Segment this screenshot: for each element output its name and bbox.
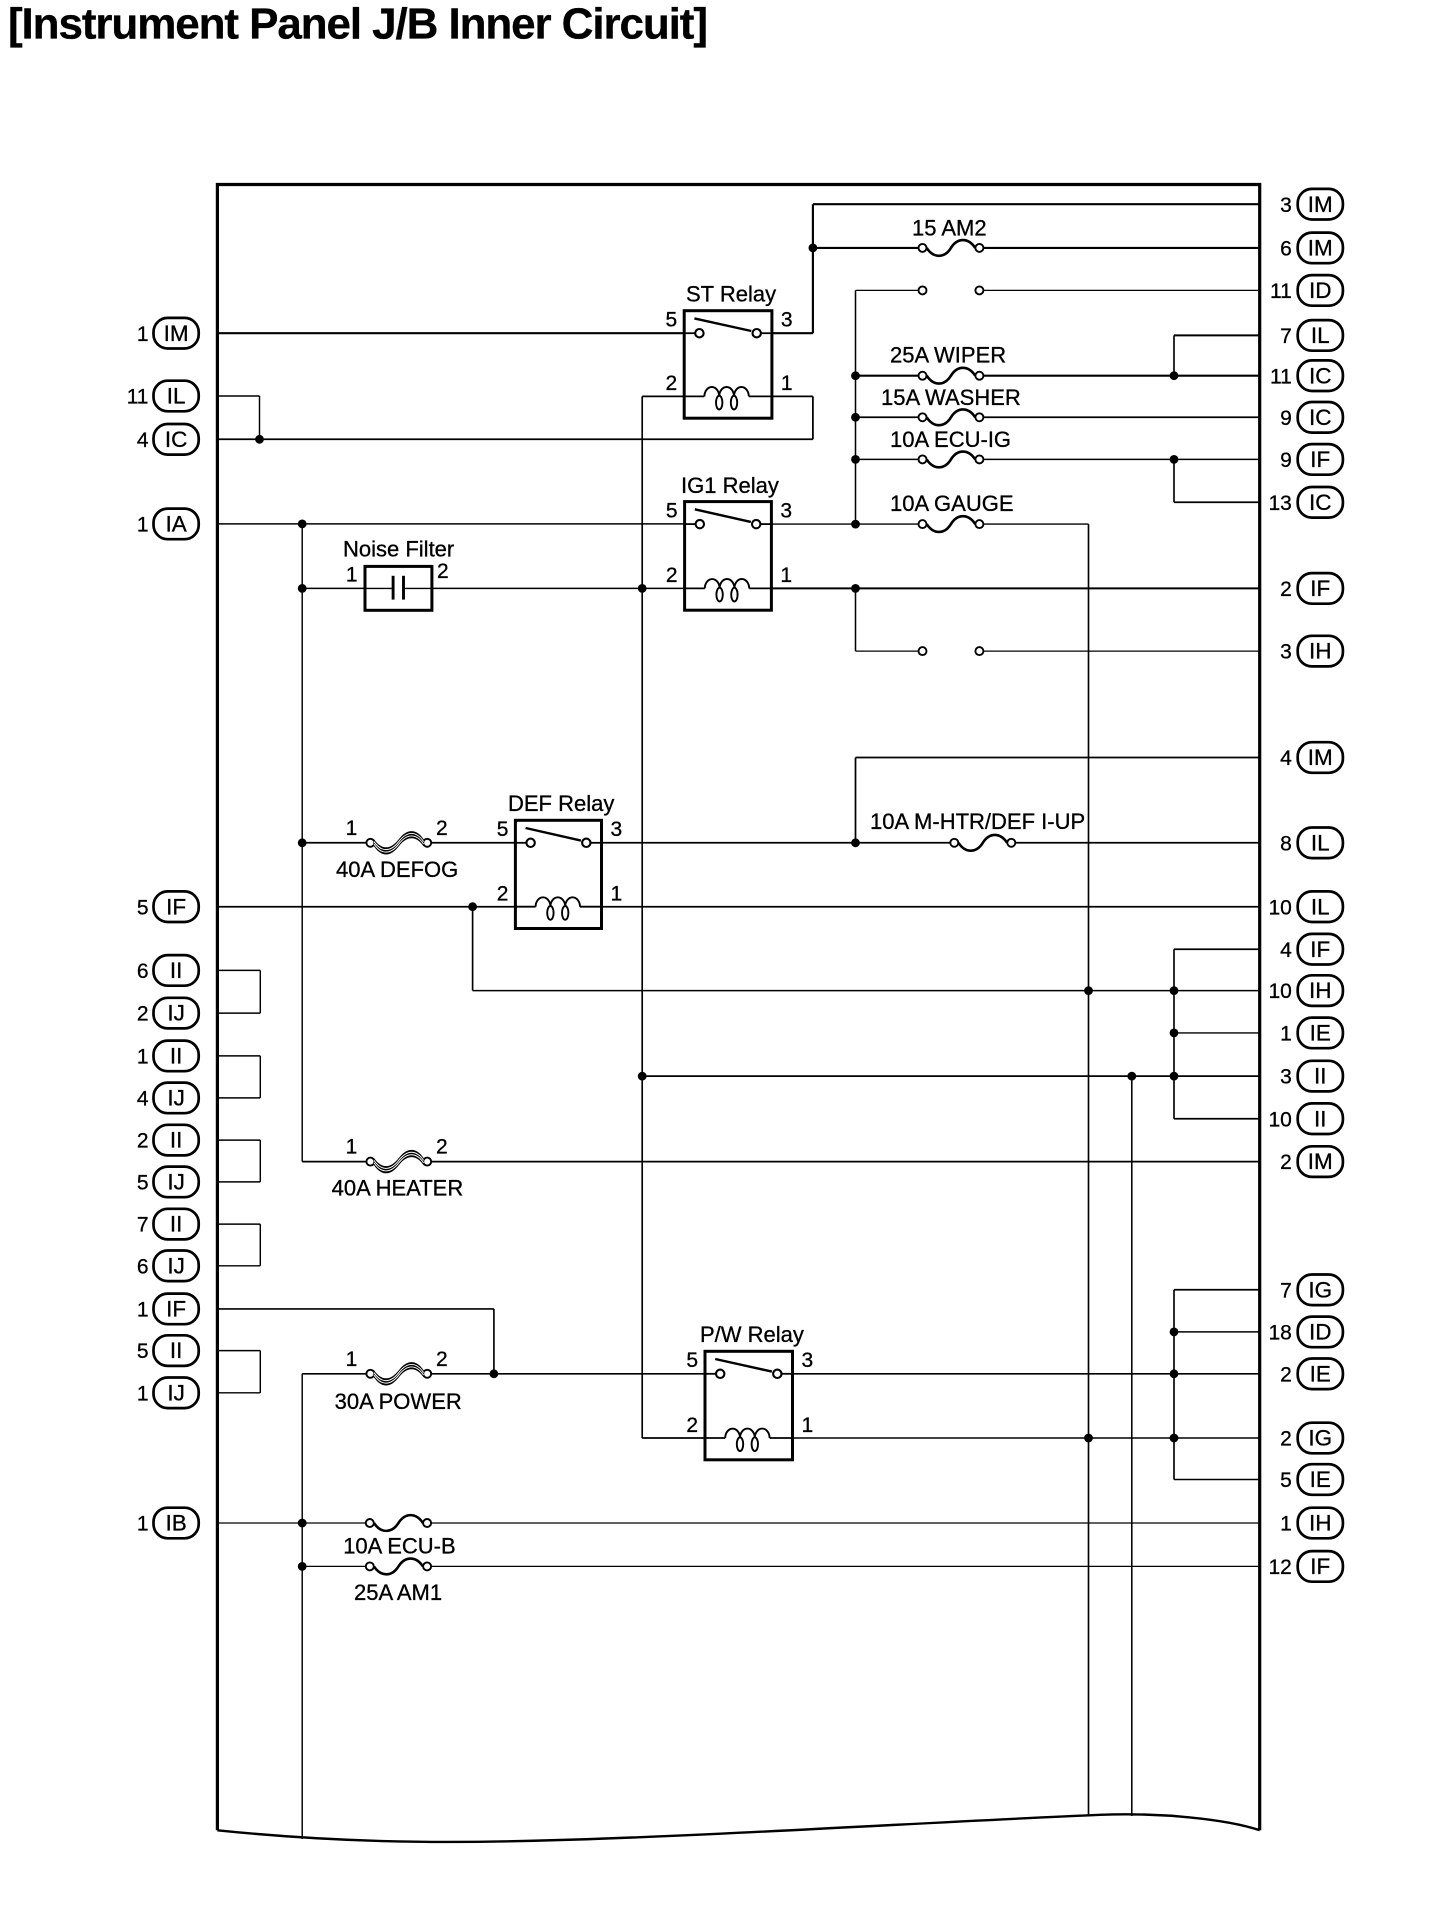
svg-text:2: 2 (1280, 578, 1292, 601)
node AM1 tap on POWER riser (298, 1562, 307, 1571)
svg-text:6: 6 (137, 1255, 149, 1278)
svg-text:2: 2 (497, 883, 509, 906)
node 4 IM junction on M-HTR row (851, 838, 860, 847)
svg-text:1: 1 (346, 1348, 358, 1371)
wire 11 IL drop to 4 IC (259, 396, 261, 439)
wire 10 II stub (1174, 1118, 1260, 1120)
svg-text:II: II (170, 1044, 183, 1069)
svg-text:2: 2 (666, 564, 678, 587)
svg-text:10: 10 (1268, 896, 1291, 919)
wire bus riser upper (WIPER/WASHER/ECU-IG/GAUGE feed) (855, 290, 857, 524)
node bus to 15A WASHER (851, 413, 860, 422)
svg-text:IC: IC (1309, 490, 1332, 515)
connector 9 IC (right) (1280, 402, 1343, 433)
svg-text:12: 12 (1268, 1556, 1291, 1579)
wire bus riser lower (2 IF to 3 IH) (855, 588, 857, 651)
svg-text:IJ: IJ (167, 1001, 185, 1026)
connector 1 IJ (left) (137, 1378, 199, 1409)
fuse 25A AM1 (end circles, element, label) (354, 1559, 442, 1606)
svg-text:IC: IC (1309, 363, 1332, 388)
svg-text:IA: IA (165, 512, 186, 537)
svg-text:3: 3 (802, 1349, 814, 1372)
wire M-HTR fuse to 8 IL (1015, 842, 1259, 844)
svg-text:5: 5 (137, 896, 149, 919)
svg-text:IL: IL (1311, 323, 1330, 348)
connector 4 IF (right) (1280, 934, 1343, 965)
wire bracket 9IF-13IC vertical (1173, 459, 1175, 502)
svg-text:2: 2 (1280, 1151, 1292, 1174)
svg-text:1: 1 (137, 1513, 149, 1536)
svg-text:IE: IE (1310, 1021, 1331, 1046)
svg-text:IF: IF (1310, 937, 1330, 962)
svg-text:IJ: IJ (167, 1380, 185, 1405)
connector 1 IH (right) (1280, 1508, 1343, 1539)
svg-text:11: 11 (1270, 365, 1292, 388)
svg-text:3: 3 (1280, 641, 1292, 664)
svg-text:IF: IF (166, 1297, 186, 1322)
svg-text:1: 1 (137, 323, 149, 346)
wire POWER fuse to P/W pin5 (431, 1373, 705, 1375)
wire long riser B (3 II down page) (1131, 1076, 1133, 1816)
wire 18 ID stub (1174, 1331, 1260, 1333)
wire 3 II row (642, 1075, 1259, 1077)
connector 3 II (right) (1280, 1061, 1343, 1092)
svg-text:2: 2 (686, 1414, 698, 1437)
svg-text:P/W Relay: P/W Relay (700, 1322, 804, 1347)
svg-text:IH: IH (1309, 639, 1332, 664)
connector 2 IF (right) (1280, 573, 1343, 604)
wire coil riser corner into P/W pin2 (642, 1437, 705, 1439)
connector 5 II (left) (137, 1335, 199, 1366)
svg-text:10A GAUGE: 10A GAUGE (890, 491, 1014, 516)
node ST/PW coil riser tap on noise row (638, 584, 647, 593)
svg-text:18: 18 (1268, 1322, 1291, 1345)
wire 1 IF stub (217, 1308, 494, 1310)
wire ECU-B fuse to 1 IH (431, 1522, 1260, 1524)
shorting bracket 2 II-5 IJ (217, 1140, 260, 1182)
svg-text:9: 9 (1280, 407, 1292, 430)
svg-text:10A ECU-B: 10A ECU-B (343, 1534, 456, 1559)
node bracket1 at 3 II (1170, 1072, 1179, 1081)
svg-text:IF: IF (1310, 447, 1330, 472)
wire DEFOG fuse to DEF pin5 (431, 842, 515, 844)
relay ST Relay (box, contacts 5-3, coil 2-1, labels) (666, 282, 793, 419)
svg-text:2: 2 (1280, 1428, 1292, 1451)
svg-text:2: 2 (1280, 1363, 1292, 1386)
connector 12 IF (right) (1268, 1551, 1342, 1582)
wire 7 IG stub (1174, 1289, 1260, 1291)
svg-text:3: 3 (611, 818, 623, 841)
svg-text:Noise Filter: Noise Filter (343, 537, 454, 562)
svg-text:15 AM2: 15 AM2 (912, 216, 987, 241)
svg-text:3: 3 (781, 308, 793, 331)
connector 10 II (right) (1268, 1103, 1342, 1134)
connector 1 IE (right) (1280, 1018, 1343, 1049)
wire HEATER row to fuse (302, 1161, 366, 1163)
svg-text:6: 6 (1280, 238, 1292, 261)
svg-text:30A POWER: 30A POWER (335, 1389, 462, 1414)
svg-text:IL: IL (167, 384, 186, 409)
svg-text:5: 5 (137, 1172, 149, 1195)
wire HEATER fuse to 2 IM (431, 1161, 1259, 1163)
connector 5 IF (left) (137, 891, 199, 922)
node 2 IG x long riser A (1084, 1434, 1093, 1443)
wire right bracket 1 vertical (1173, 949, 1175, 1118)
connector 10 IH (right) (1268, 975, 1342, 1006)
connector 6 II (left) (137, 955, 199, 986)
svg-text:25A WIPER: 25A WIPER (890, 342, 1006, 367)
svg-text:II: II (1314, 1064, 1327, 1089)
svg-text:II: II (170, 1128, 183, 1153)
connector 4 IM (right) (1280, 742, 1343, 773)
wire 13 IC stub (1174, 501, 1260, 503)
connector 1 IM (left) (137, 318, 199, 349)
svg-text:3: 3 (1280, 194, 1292, 217)
svg-text:IM: IM (1308, 1149, 1333, 1174)
node AM2 tap on ST pin3 riser (809, 244, 818, 253)
svg-text:7: 7 (137, 1214, 149, 1237)
svg-text:1: 1 (611, 883, 623, 906)
connector 1 II (left) (137, 1041, 199, 1072)
svg-text:5: 5 (686, 1349, 698, 1372)
svg-text:IG: IG (1308, 1426, 1332, 1451)
wire 1 IM to ST pin5 (217, 332, 684, 334)
wire ST pin3 to riser (772, 332, 813, 334)
svg-text:IG1 Relay: IG1 Relay (681, 473, 779, 498)
connector 1 IA (left) (137, 509, 199, 540)
svg-text:4: 4 (137, 1088, 149, 1111)
connector 1 IB (left) (137, 1508, 199, 1539)
svg-text:IF: IF (1310, 1554, 1330, 1579)
node bus to 10A ECU-IG (851, 455, 860, 464)
svg-text:IM: IM (164, 321, 189, 346)
svg-text:II: II (170, 1338, 183, 1363)
wire 3 IM row (813, 203, 1260, 205)
node 3 II tap on coil riser (638, 1072, 647, 1081)
svg-text:[Instrument Panel J/B Inner Ci: [Instrument Panel J/B Inner Circuit] (8, 0, 708, 49)
connector 7 II (left) (137, 1209, 199, 1240)
fuse 10A ECU-B (end circles, element, label) (343, 1515, 456, 1559)
wire AM1 fuse to 12 IF (431, 1565, 1260, 1567)
wire 3 IH row right (983, 650, 1259, 652)
svg-text:2: 2 (436, 817, 448, 840)
wire AM1 row to fuse (302, 1565, 366, 1567)
connector 2 IJ (left) (137, 998, 199, 1029)
svg-text:IE: IE (1310, 1361, 1331, 1386)
svg-text:ID: ID (1309, 278, 1332, 303)
fuse 15A WASHER (end circles, element, label) (881, 385, 1021, 425)
wire DEFOG row to fuse (302, 842, 366, 844)
wire noise row mid to IG1 pin2 (432, 587, 685, 589)
fusible link 40A HEATER (end circles, wavy band, pins 1-2, label) (332, 1136, 464, 1201)
svg-text:ST Relay: ST Relay (686, 282, 776, 307)
node bracket1 at 1 IE (1170, 1029, 1179, 1038)
shorting bracket 6 II-2 IJ (217, 970, 260, 1013)
svg-text:11: 11 (1270, 280, 1292, 303)
svg-text:10: 10 (1268, 1108, 1291, 1131)
wire IG1 pin3 to GAUGE fuse (771, 523, 918, 525)
wire 7 IL stub (1174, 334, 1260, 336)
svg-text:4: 4 (1280, 747, 1292, 770)
node 3 II to long riser B (1127, 1072, 1136, 1081)
connector 9 IF (right) (1280, 444, 1343, 475)
fuse 25A WIPER (end circles, element, label) (890, 342, 1006, 383)
node 1 IF junction on POWER row (490, 1369, 499, 1378)
wire noise row left (302, 587, 365, 589)
svg-text:40A DEFOG: 40A DEFOG (336, 857, 458, 882)
svg-text:IJ: IJ (167, 1253, 185, 1278)
svg-text:1: 1 (137, 1299, 149, 1322)
svg-text:IJ: IJ (167, 1086, 185, 1111)
svg-text:3: 3 (1280, 1066, 1292, 1089)
svg-text:7: 7 (1280, 1279, 1292, 1302)
node bus to 25A WIPER (851, 371, 860, 380)
shorting bracket 1 II-4 IJ (217, 1056, 260, 1098)
shorting bracket 7 II-6 IJ (217, 1224, 260, 1266)
connector 7 IL (right) (1280, 320, 1343, 351)
node 2 IG x right bracket2 (1170, 1434, 1179, 1443)
connector 3 IH (right) (1280, 636, 1343, 667)
svg-text:5: 5 (1280, 1469, 1292, 1492)
svg-text:6: 6 (137, 960, 149, 983)
svg-text:IL: IL (1311, 830, 1330, 855)
node 2 IE x right bracket2 (1170, 1369, 1179, 1378)
wire 4 IM row (856, 757, 1260, 759)
svg-text:1: 1 (346, 1136, 358, 1159)
wire ST pin1 drop (812, 396, 814, 439)
svg-text:10A M-HTR/DEF I-UP: 10A M-HTR/DEF I-UP (870, 809, 1085, 834)
wire coil riser (ST pin2 down to P/W pin2) (641, 396, 643, 1438)
noise filter NF (box, capacitor plates, pins 1-2, label) (343, 537, 454, 611)
svg-text:2: 2 (137, 1130, 149, 1153)
svg-text:IH: IH (1309, 1511, 1332, 1536)
connector 3 IM (right) (1280, 189, 1343, 220)
svg-text:4: 4 (1280, 939, 1292, 962)
svg-text:8: 8 (1280, 832, 1292, 855)
svg-text:2: 2 (666, 372, 678, 395)
connector 2 IE (right) (1280, 1359, 1343, 1390)
node DEFOG fuse tap on riser (298, 838, 307, 847)
wire 10A ECU-IG row (856, 458, 919, 460)
wire 1 IB row to fuse (217, 1522, 365, 1524)
svg-text:1: 1 (780, 564, 792, 587)
wire 11 IL stub (217, 395, 259, 397)
junction-block torn bottom edge (217, 1814, 1259, 1842)
connector 5 IJ (left) (137, 1167, 199, 1198)
svg-text:40A HEATER: 40A HEATER (332, 1176, 464, 1201)
svg-text:25A AM1: 25A AM1 (354, 1580, 442, 1605)
svg-text:II: II (170, 958, 183, 983)
node 10 IH x long riser A (1084, 986, 1093, 995)
svg-text:1: 1 (781, 372, 793, 395)
svg-text:IG: IG (1308, 1277, 1332, 1302)
wire DEF pin3 to M-HTR fuse (602, 842, 951, 844)
svg-text:IJ: IJ (167, 1170, 185, 1195)
wire 1 IF drop to POWER row (493, 1309, 495, 1374)
svg-text:1: 1 (802, 1414, 814, 1437)
wire bracket 7IL-11IC vertical (1173, 335, 1175, 375)
wire vertical ST pin3 to 3 IM / AM2 (812, 204, 814, 333)
wire 5 IE stub (1174, 1479, 1260, 1481)
svg-text:10A ECU-IG: 10A ECU-IG (890, 427, 1011, 452)
wire right bracket 2 vertical (1173, 1290, 1175, 1480)
wire long riser A (GAUGE feed down page) (1088, 524, 1090, 1815)
svg-text:4: 4 (137, 429, 149, 452)
svg-text:II: II (170, 1212, 183, 1237)
wire P/W pin3 to 2 IE (793, 1373, 1260, 1375)
svg-text:IH: IH (1309, 978, 1332, 1003)
node bracket at 11 IC (WIPER out) (1170, 371, 1179, 380)
connector 13 IC (right) (1268, 487, 1342, 518)
connector 8 IL (right) (1280, 828, 1343, 859)
node noise filter tap (298, 584, 307, 593)
fuse 15A AM2 (end circles, element, label) (912, 216, 987, 256)
svg-text:11: 11 (127, 386, 149, 409)
connector 6 IM (right) (1280, 233, 1343, 264)
wire 1 IA to IG1 pin5 (217, 523, 684, 525)
connector 11 IL (left) (127, 381, 199, 412)
wire GAUGE fuse to long riser (983, 523, 1088, 525)
svg-text:5: 5 (666, 499, 678, 522)
node bracket at 9 IF (ECU-IG out) (1170, 455, 1179, 464)
svg-text:1: 1 (137, 514, 149, 537)
node 1 IA tap to DEFOG riser (298, 520, 307, 529)
connector 4 IC (left) (137, 424, 199, 455)
fusible link 30A POWER (end circles, wavy band, pins 1-2, label) (335, 1348, 462, 1414)
connector 10 IL (right) (1268, 891, 1342, 922)
wire POWER row to fuse (302, 1373, 366, 1375)
wire 15A WASHER row (856, 416, 919, 418)
wire ST pin1 right (772, 395, 813, 397)
svg-text:13: 13 (1268, 492, 1291, 515)
wire 4 IM drop to M-HTR row (855, 758, 857, 843)
fuse 10A GAUGE (end circles, element, label) (890, 491, 1014, 532)
connector 11 IC (right) (1270, 360, 1343, 391)
svg-text:IF: IF (166, 894, 186, 919)
svg-text:1: 1 (1280, 1513, 1292, 1536)
wire 4 IC row (217, 438, 813, 440)
svg-text:IM: IM (1308, 745, 1333, 770)
svg-text:2: 2 (437, 560, 449, 583)
connector 4 IJ (left) (137, 1083, 199, 1114)
fusible link 40A DEFOG (end circles, wavy band, pins 1-2, label) (336, 817, 458, 882)
svg-text:2: 2 (436, 1348, 448, 1371)
connector 2 IM (right) (1280, 1146, 1343, 1177)
svg-text:IE: IE (1310, 1467, 1331, 1492)
open contact pair to 11 ID (919, 286, 984, 294)
svg-text:IM: IM (1308, 236, 1333, 261)
wire POWER riser (down to ECU-B/AM1) (301, 1374, 303, 1839)
shorting bracket 5 II-1 IJ (217, 1351, 260, 1393)
node 10 IH x right bracket (1170, 986, 1179, 995)
svg-text:IF: IF (1310, 576, 1330, 601)
relay IG1 Relay (box, contacts 5-3, coil 2-1, labels) (666, 473, 792, 610)
connector 2 IG (right) (1280, 1423, 1343, 1454)
wire 4 IF stub (1174, 948, 1260, 950)
svg-text:IL: IL (1311, 894, 1330, 919)
svg-text:1: 1 (137, 1046, 149, 1069)
connector 1 IF (left) (137, 1294, 199, 1325)
svg-text:II: II (1314, 1106, 1327, 1131)
relay P/W Relay (box, contacts 5-3, coil 2-1, labels) (686, 1322, 813, 1460)
node 11 IL junction on 4 IC row (255, 435, 264, 444)
svg-text:3: 3 (780, 499, 792, 522)
svg-text:5: 5 (137, 1340, 149, 1363)
svg-text:1: 1 (1280, 1023, 1292, 1046)
svg-text:1: 1 (137, 1382, 149, 1405)
junction-block border frame (217, 185, 1259, 1831)
svg-text:1: 1 (346, 817, 358, 840)
node bus to 10A GAUGE / IG1 pin3 (851, 520, 860, 529)
svg-text:7: 7 (1280, 325, 1292, 348)
wire 25A WIPER row (856, 375, 919, 377)
svg-text:ID: ID (1309, 1320, 1332, 1345)
svg-text:10: 10 (1268, 980, 1291, 1003)
svg-text:15A WASHER: 15A WASHER (881, 385, 1021, 410)
node 5 IF drop tap (468, 902, 477, 911)
connector 7 IG (right) (1280, 1275, 1343, 1306)
connector 5 IE (right) (1280, 1464, 1343, 1495)
wire 1 IE stub (1174, 1032, 1260, 1034)
svg-text:5: 5 (497, 818, 509, 841)
svg-text:IB: IB (165, 1511, 186, 1536)
connector 2 II (left) (137, 1125, 199, 1156)
fuse 10A M-HTR/DEF I-UP (end circles, element, label) (870, 809, 1085, 851)
wire ST pin2 to left riser (642, 395, 684, 397)
wire IG1 pin1 to 2 IF (771, 587, 1259, 589)
open contact pair to 3 IH (919, 647, 984, 655)
connector 6 IJ (left) (137, 1251, 199, 1282)
wire 5 IF to DEF pin2 (217, 906, 515, 908)
node 1 IB tap on POWER riser (298, 1519, 307, 1528)
node IG1 pin1 to lower bus riser (851, 584, 860, 593)
svg-text:2: 2 (137, 1003, 149, 1026)
wire 11 ID row (856, 289, 919, 291)
node bracket2 at 18 ID (1170, 1328, 1179, 1337)
wire 6 IM / 15 AM2 row (813, 247, 919, 249)
connector 11 ID (right) (1270, 275, 1343, 306)
wire DEF pin1 to 10 IL (602, 906, 1260, 908)
wire P/W pin1 to 2 IG (793, 1437, 1260, 1439)
wire 3 IH row left (856, 650, 919, 652)
svg-text:5: 5 (666, 308, 678, 331)
wire DEFOG riser (1 IA down to heater row) (301, 524, 303, 1162)
svg-text:1: 1 (346, 564, 358, 587)
svg-text:DEF Relay: DEF Relay (508, 791, 614, 816)
fuse 10A ECU-IG (end circles, element, label) (890, 427, 1011, 467)
wire drop 5 IF to 10 IH row (472, 907, 474, 991)
wire 10 IH row (473, 990, 1260, 992)
relay DEF Relay (box, contacts 5-3, coil 2-1, labels) (497, 791, 622, 929)
connector 18 ID (right) (1268, 1317, 1342, 1348)
svg-text:IC: IC (165, 427, 188, 452)
svg-text:2: 2 (436, 1136, 448, 1159)
svg-text:IM: IM (1308, 192, 1333, 217)
svg-text:IC: IC (1309, 405, 1332, 430)
svg-text:9: 9 (1280, 449, 1292, 472)
